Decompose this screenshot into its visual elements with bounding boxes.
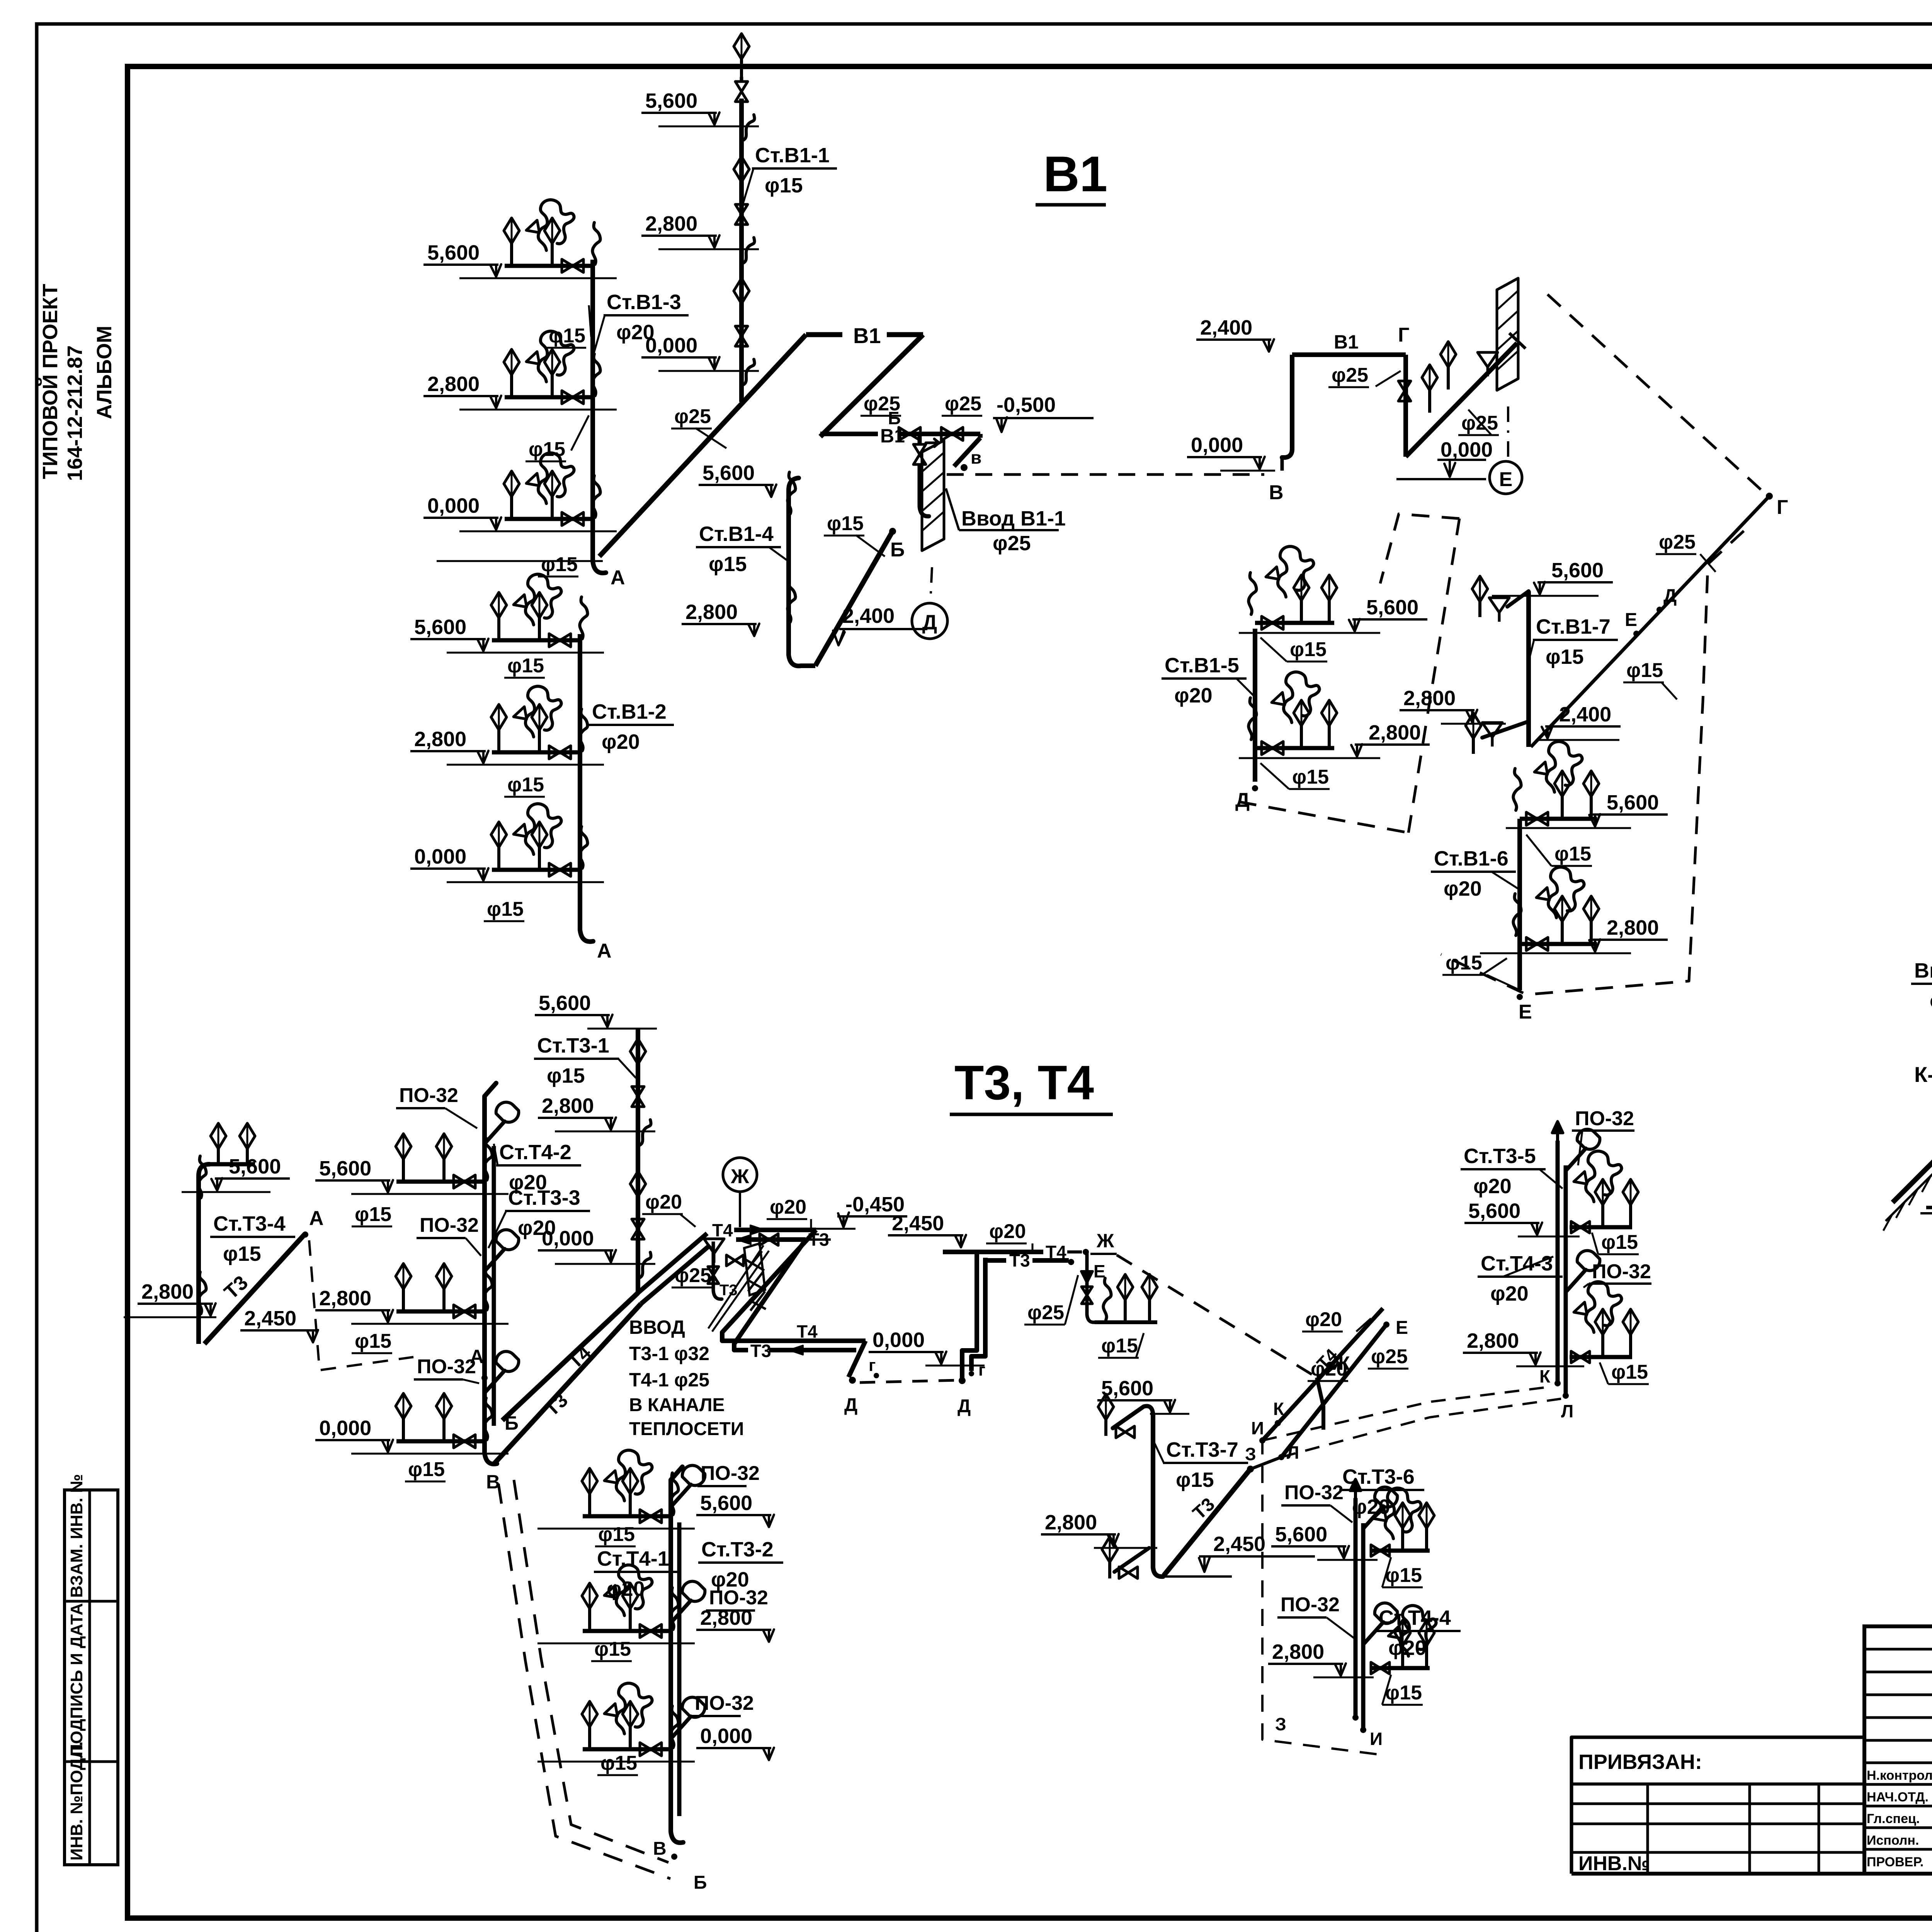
- svg-text:Ст.В1-3: Ст.В1-3: [607, 291, 681, 314]
- svg-text:ВЗАМ. ИНВ. №: ВЗАМ. ИНВ. №: [67, 1474, 86, 1598]
- svg-text:Ст.В1-6: Ст.В1-6: [1434, 847, 1509, 870]
- svg-text:И: И: [1370, 1729, 1383, 1749]
- svg-text:Ж: Ж: [1096, 1230, 1114, 1252]
- svg-text:Т4-1 φ25: Т4-1 φ25: [629, 1369, 709, 1391]
- svg-text:Т4: Т4: [797, 1321, 818, 1342]
- svg-text:φ15: φ15: [1292, 766, 1329, 788]
- svg-text:5,600: 5,600: [1551, 559, 1604, 582]
- svg-text:Е: Е: [1396, 1318, 1408, 1338]
- svg-text:2,800: 2,800: [700, 1606, 752, 1629]
- svg-text:Ст.Т4-4: Ст.Т4-4: [1379, 1606, 1451, 1629]
- svg-text:2,800: 2,800: [1403, 687, 1456, 710]
- svg-text:Ст.В1-5: Ст.В1-5: [1165, 654, 1239, 677]
- svg-text:ПО-32: ПО-32: [1284, 1481, 1344, 1504]
- svg-text:5,600: 5,600: [229, 1155, 281, 1178]
- svg-text:φ15: φ15: [355, 1330, 391, 1352]
- svg-text:З: З: [1275, 1714, 1286, 1734]
- svg-text:2,800: 2,800: [1369, 721, 1421, 744]
- svg-text:А: А: [309, 1207, 324, 1230]
- svg-text:φ15: φ15: [547, 1064, 585, 1087]
- svg-text:φ15: φ15: [1101, 1335, 1138, 1357]
- svg-text:2,800: 2,800: [542, 1094, 594, 1117]
- svg-text:Д: Д: [922, 611, 937, 634]
- svg-text:φ25: φ25: [1027, 1301, 1064, 1324]
- svg-text:2,800: 2,800: [1045, 1511, 1097, 1534]
- svg-text:φ20: φ20: [645, 1191, 682, 1213]
- svg-text:φ25: φ25: [993, 532, 1031, 555]
- svg-text:2,400: 2,400: [1559, 703, 1611, 726]
- svg-text:2,400: 2,400: [1200, 316, 1252, 339]
- svg-text:φ15: φ15: [709, 553, 747, 576]
- svg-text:φ20: φ20: [1490, 1282, 1529, 1305]
- svg-text:2,800: 2,800: [1607, 916, 1659, 939]
- svg-text:2,800: 2,800: [1272, 1640, 1324, 1663]
- svg-text:5,600: 5,600: [702, 461, 755, 485]
- svg-text:ПО-32: ПО-32: [1575, 1107, 1634, 1130]
- svg-text:Д: Д: [844, 1395, 857, 1415]
- svg-text:Т3, Т4: Т3, Т4: [954, 1056, 1094, 1110]
- svg-text:ПО-32: ПО-32: [701, 1462, 760, 1485]
- svg-text:φ15: φ15: [594, 1638, 631, 1660]
- svg-text:А: А: [611, 566, 625, 589]
- svg-text:5,600: 5,600: [319, 1157, 371, 1180]
- svg-text:φ15: φ15: [507, 655, 544, 677]
- svg-text:φ15: φ15: [1446, 952, 1482, 974]
- svg-text:Е: Е: [1519, 1001, 1532, 1023]
- svg-text:φ15: φ15: [507, 774, 544, 796]
- svg-text:Т3: Т3: [750, 1341, 771, 1361]
- svg-text:Исполн.: Исполн.: [1867, 1833, 1919, 1848]
- svg-text:НАЧ.ОТД.: НАЧ.ОТД.: [1867, 1790, 1929, 1804]
- svg-text:Н.контроль: Н.контроль: [1867, 1768, 1932, 1783]
- svg-text:φ20: φ20: [602, 730, 640, 753]
- svg-text:0,000: 0,000: [414, 845, 466, 868]
- svg-text:Ст.Т3-3: Ст.Т3-3: [508, 1186, 580, 1209]
- svg-text:ПО-32: ПО-32: [1281, 1594, 1340, 1616]
- svg-text:φ25: φ25: [675, 1264, 711, 1287]
- svg-text:ПО-32: ПО-32: [420, 1214, 479, 1236]
- svg-text:Ст.В1-4: Ст.В1-4: [699, 522, 774, 546]
- svg-text:φ15: φ15: [1176, 1468, 1214, 1492]
- svg-text:φ100: φ100: [1930, 989, 1932, 1012]
- svg-text:Д: Д: [1235, 789, 1250, 811]
- svg-text:φ15: φ15: [598, 1523, 635, 1546]
- svg-text:0,000: 0,000: [1440, 438, 1493, 461]
- svg-text:2,800: 2,800: [141, 1280, 194, 1303]
- svg-text:Б: Б: [694, 1872, 707, 1893]
- svg-text:Ст.В1-1: Ст.В1-1: [755, 144, 830, 167]
- svg-text:А: А: [597, 940, 612, 962]
- svg-text:К: К: [1539, 1366, 1551, 1386]
- svg-text:г: г: [978, 1361, 985, 1379]
- svg-text:Ст.Т4-1: Ст.Т4-1: [597, 1547, 669, 1570]
- svg-text:φ15: φ15: [1385, 1564, 1422, 1587]
- svg-text:Ст.Т3-1: Ст.Т3-1: [537, 1034, 609, 1057]
- svg-text:ВВОД: ВВОД: [629, 1316, 685, 1338]
- svg-text:в: в: [971, 447, 981, 468]
- svg-text:0,000: 0,000: [319, 1417, 371, 1440]
- svg-text:Ввод В1-1: Ввод В1-1: [961, 507, 1066, 530]
- svg-text:2,450: 2,450: [244, 1307, 296, 1330]
- svg-text:Ст.Т3-4: Ст.Т3-4: [213, 1212, 286, 1235]
- svg-text:0,000: 0,000: [645, 334, 697, 357]
- svg-text:Ст.Т4-2: Ст.Т4-2: [499, 1141, 571, 1164]
- svg-text:5,600: 5,600: [1101, 1377, 1153, 1400]
- svg-text:ПО-32: ПО-32: [1592, 1260, 1651, 1283]
- svg-text:φ20: φ20: [711, 1568, 749, 1591]
- svg-text:φ15: φ15: [549, 325, 585, 347]
- svg-text:Ст.В1-2: Ст.В1-2: [592, 700, 667, 723]
- svg-text:К-2: К-2: [1914, 1062, 1932, 1087]
- svg-text:Б: Б: [890, 539, 905, 561]
- svg-text:φ25: φ25: [674, 405, 711, 428]
- svg-text:ПО-32: ПО-32: [399, 1084, 458, 1107]
- svg-text:φ15: φ15: [529, 438, 565, 461]
- svg-text:Ж: Ж: [731, 1165, 750, 1188]
- svg-text:ИНВ.№: ИНВ.№: [1578, 1852, 1650, 1875]
- svg-text:φ20: φ20: [1444, 877, 1482, 900]
- svg-text:φ20: φ20: [1473, 1175, 1512, 1198]
- svg-text:φ15: φ15: [1554, 843, 1591, 865]
- svg-text:φ15: φ15: [1601, 1231, 1638, 1253]
- svg-text:φ15: φ15: [1546, 645, 1584, 668]
- svg-text:ПОДПИСЬ И ДАТА: ПОДПИСЬ И ДАТА: [67, 1603, 86, 1756]
- svg-text:ПРОВЕР.: ПРОВЕР.: [1867, 1855, 1923, 1869]
- svg-text:ТИПОВОЙ ПРОЕКТ: ТИПОВОЙ ПРОЕКТ: [38, 284, 62, 479]
- svg-text:5,600: 5,600: [700, 1492, 752, 1515]
- svg-text:И: И: [1251, 1418, 1264, 1438]
- svg-text:0,000: 0,000: [427, 494, 480, 517]
- svg-text:φ15: φ15: [600, 1752, 637, 1774]
- svg-text:В КАНАЛЕ: В КАНАЛЕ: [629, 1395, 725, 1415]
- svg-text:φ15: φ15: [223, 1242, 261, 1265]
- svg-text:В1: В1: [853, 323, 881, 348]
- svg-text:2,800: 2,800: [427, 372, 480, 396]
- svg-text:φ25: φ25: [1332, 364, 1368, 386]
- svg-text:Е: Е: [1499, 468, 1513, 491]
- svg-text:φ15: φ15: [355, 1203, 391, 1226]
- svg-text:φ25: φ25: [1371, 1345, 1408, 1368]
- svg-text:Т3-1 φ32: Т3-1 φ32: [629, 1343, 709, 1364]
- svg-text:АЛЬБОМ: АЛЬБОМ: [93, 326, 116, 419]
- svg-text:5,600: 5,600: [1607, 791, 1659, 814]
- svg-text:2,450: 2,450: [1213, 1532, 1265, 1556]
- svg-text:А: А: [470, 1346, 484, 1367]
- svg-text:φ25: φ25: [945, 393, 981, 415]
- svg-text:В: В: [653, 1838, 667, 1859]
- svg-text:φ15: φ15: [765, 174, 803, 197]
- svg-text:φ20: φ20: [1305, 1308, 1342, 1331]
- svg-text:φ15: φ15: [408, 1458, 445, 1481]
- svg-text:2,450: 2,450: [892, 1212, 944, 1235]
- svg-text:ПРИВЯЗАН:: ПРИВЯЗАН:: [1578, 1750, 1702, 1774]
- svg-text:ТЕПЛОСЕТИ: ТЕПЛОСЕТИ: [629, 1419, 744, 1439]
- svg-text:φ15: φ15: [827, 512, 864, 535]
- svg-text:В1: В1: [1334, 331, 1359, 353]
- svg-text:φ20: φ20: [989, 1220, 1026, 1243]
- svg-text:0,000: 0,000: [1191, 434, 1243, 457]
- svg-text:-0,500: -0,500: [997, 393, 1056, 417]
- svg-text:В: В: [1269, 481, 1284, 504]
- svg-text:ИНВ. №ПОДЛ.: ИНВ. №ПОДЛ.: [67, 1742, 86, 1861]
- svg-text:Ст.Т3-7: Ст.Т3-7: [1166, 1438, 1238, 1461]
- svg-text:Т4: Т4: [712, 1220, 733, 1240]
- svg-text:Л: Л: [1561, 1401, 1573, 1421]
- svg-text:2,800: 2,800: [1467, 1329, 1519, 1352]
- svg-text:5,600: 5,600: [427, 241, 480, 264]
- svg-text:2,800: 2,800: [319, 1287, 371, 1310]
- svg-text:φ20: φ20: [607, 1577, 645, 1600]
- svg-text:φ25: φ25: [864, 393, 900, 415]
- svg-text:φ25: φ25: [1659, 531, 1696, 553]
- svg-text:5,600: 5,600: [1275, 1523, 1327, 1546]
- svg-text:Ст.Т3-5: Ст.Т3-5: [1464, 1145, 1536, 1168]
- svg-text:164-12-212.87: 164-12-212.87: [63, 345, 87, 481]
- svg-text:φ15: φ15: [1626, 659, 1663, 682]
- svg-text:φ15: φ15: [1611, 1361, 1648, 1383]
- svg-text:φ15: φ15: [1385, 1682, 1422, 1704]
- svg-text:2,800: 2,800: [414, 728, 466, 751]
- svg-text:Ст.Т3-2: Ст.Т3-2: [701, 1538, 774, 1561]
- svg-text:З: З: [1245, 1444, 1256, 1464]
- svg-text:ПО-32: ПО-32: [417, 1355, 476, 1378]
- svg-text:2,800: 2,800: [645, 212, 697, 235]
- svg-text:Ст.Т3-6: Ст.Т3-6: [1342, 1465, 1415, 1488]
- svg-text:φ15: φ15: [541, 553, 578, 576]
- svg-text:5,600: 5,600: [645, 89, 697, 112]
- svg-text:5,600: 5,600: [1468, 1199, 1520, 1223]
- svg-text:г: г: [869, 1356, 876, 1375]
- svg-text:Г: Г: [1777, 496, 1788, 519]
- svg-text:0,000: 0,000: [700, 1725, 752, 1748]
- svg-text:Д: Д: [957, 1396, 971, 1417]
- svg-text:2,800: 2,800: [685, 600, 738, 624]
- svg-text:Гл.спец.: Гл.спец.: [1867, 1811, 1920, 1826]
- svg-text:0,000: 0,000: [542, 1227, 594, 1250]
- svg-text:5,600: 5,600: [539, 992, 591, 1015]
- svg-text:Г: Г: [1398, 324, 1409, 346]
- svg-text:Т3: Т3: [1009, 1250, 1030, 1270]
- svg-text:0,000: 0,000: [872, 1328, 925, 1352]
- svg-text:ПО-32: ПО-32: [695, 1692, 754, 1714]
- svg-text:φ15: φ15: [487, 898, 524, 920]
- svg-text:Выпуск К1-2: Выпуск К1-2: [1914, 959, 1932, 982]
- svg-text:φ15: φ15: [1290, 638, 1327, 661]
- svg-text:Д: Д: [1663, 586, 1677, 606]
- svg-text:Е: Е: [1625, 610, 1637, 630]
- svg-text:5,600: 5,600: [414, 616, 466, 639]
- svg-text:Ст.В1-7: Ст.В1-7: [1536, 615, 1611, 638]
- svg-text:φ20: φ20: [770, 1196, 806, 1218]
- svg-text:В1: В1: [1043, 146, 1107, 202]
- svg-text:φ20: φ20: [1174, 684, 1213, 707]
- svg-text:5,600: 5,600: [1366, 596, 1418, 619]
